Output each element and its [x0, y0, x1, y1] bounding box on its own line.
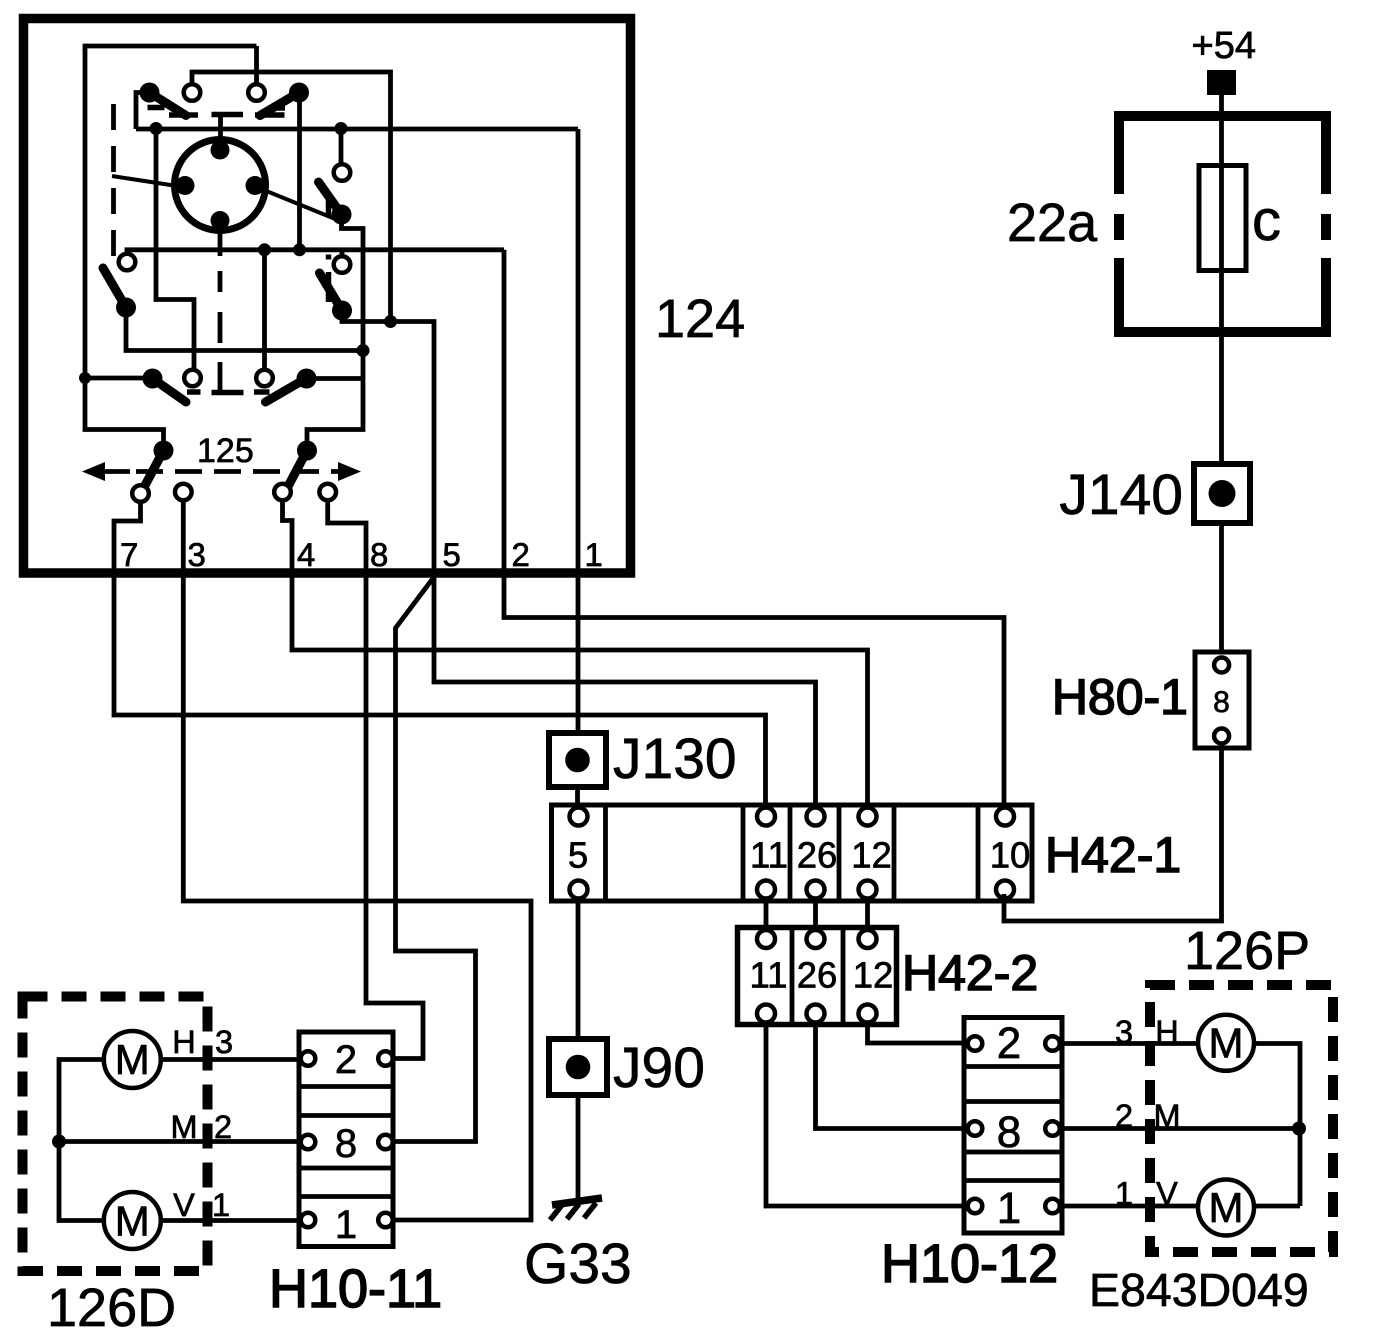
svg-text:M: M: [170, 1109, 197, 1145]
svg-text:H10-11: H10-11: [269, 1259, 442, 1319]
svg-text:3: 3: [1115, 1014, 1133, 1050]
svg-text:2: 2: [335, 1038, 357, 1082]
svg-text:c: c: [1252, 188, 1281, 253]
svg-text:4: 4: [297, 536, 315, 573]
svg-text:1: 1: [585, 536, 603, 573]
svg-text:5: 5: [568, 835, 588, 876]
svg-text:G33: G33: [524, 1232, 632, 1296]
svg-text:M: M: [1153, 1098, 1180, 1134]
svg-text:+54: +54: [1192, 25, 1256, 67]
svg-text:1: 1: [997, 1184, 1021, 1233]
svg-text:H42-2: H42-2: [902, 945, 1038, 1001]
svg-text:10: 10: [990, 835, 1031, 876]
svg-text:26: 26: [797, 835, 838, 876]
svg-text:H: H: [1155, 1014, 1178, 1050]
svg-text:2: 2: [997, 1019, 1021, 1068]
svg-text:26: 26: [797, 955, 838, 996]
svg-text:1: 1: [335, 1203, 357, 1247]
svg-text:M: M: [1209, 1020, 1244, 1067]
svg-text:125: 125: [197, 432, 254, 470]
svg-text:3: 3: [188, 536, 206, 573]
svg-text:7: 7: [120, 536, 138, 573]
svg-text:8: 8: [335, 1122, 357, 1166]
svg-text:11: 11: [750, 835, 788, 876]
svg-text:H42-1: H42-1: [1045, 827, 1181, 883]
svg-text:2: 2: [214, 1109, 232, 1145]
svg-text:11: 11: [750, 955, 788, 996]
svg-text:126D: 126D: [47, 1278, 176, 1336]
svg-text:124: 124: [655, 289, 745, 349]
svg-text:8: 8: [370, 536, 388, 573]
svg-text:J90: J90: [613, 1036, 705, 1100]
svg-text:H80-1: H80-1: [1052, 669, 1188, 725]
svg-text:126P: 126P: [1184, 921, 1310, 981]
svg-text:J130: J130: [613, 727, 737, 791]
svg-text:H: H: [172, 1024, 195, 1060]
svg-text:5: 5: [443, 536, 461, 573]
svg-text:E843D049: E843D049: [1089, 1264, 1309, 1316]
svg-text:12: 12: [853, 955, 894, 996]
svg-text:V: V: [1156, 1176, 1178, 1212]
svg-text:1: 1: [212, 1187, 230, 1223]
svg-text:2: 2: [512, 536, 530, 573]
svg-text:H10-12: H10-12: [881, 1234, 1058, 1294]
svg-text:12: 12: [851, 835, 892, 876]
svg-text:3: 3: [215, 1024, 233, 1060]
svg-text:M: M: [115, 1198, 150, 1245]
svg-text:22a: 22a: [1007, 193, 1098, 253]
svg-text:2: 2: [1115, 1098, 1133, 1134]
svg-text:M: M: [115, 1036, 150, 1083]
svg-text:V: V: [173, 1187, 195, 1223]
svg-text:J140: J140: [1059, 463, 1183, 527]
svg-text:8: 8: [997, 1108, 1021, 1157]
svg-text:8: 8: [1213, 686, 1230, 719]
svg-text:1: 1: [1115, 1176, 1133, 1212]
svg-text:M: M: [1209, 1184, 1244, 1231]
